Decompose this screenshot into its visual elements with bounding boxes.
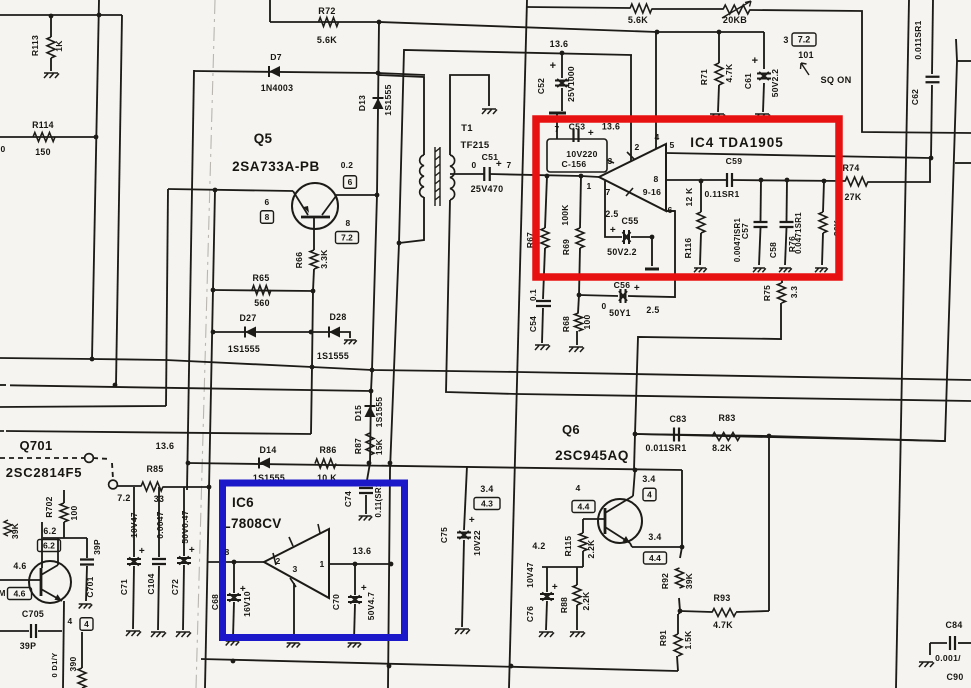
wire C75 chain <box>464 466 467 530</box>
svg-text:D13: D13 <box>357 95 367 111</box>
svg-text:R71: R71 <box>699 69 709 85</box>
node C70 top <box>353 562 358 567</box>
wire C76 lower lead <box>546 601 547 630</box>
wire R113 leads <box>50 16 52 37</box>
node netA/D13 chain <box>370 368 375 373</box>
svg-text:13.6: 13.6 <box>353 546 372 556</box>
ground C70 <box>348 643 362 648</box>
capacitor C104 <box>152 559 166 564</box>
wire net A left <box>0 358 92 359</box>
svg-text:+: + <box>552 582 558 593</box>
svg-text:M: M <box>0 588 6 598</box>
svg-text:25V470: 25V470 <box>471 184 504 194</box>
svg-text:C83: C83 <box>669 414 686 424</box>
svg-text:4: 4 <box>68 616 73 626</box>
op-amp IC4 triangle <box>599 144 666 211</box>
svg-text:1K: 1K <box>54 40 64 52</box>
svg-text:7.2: 7.2 <box>341 233 353 243</box>
capacitor C62 <box>926 77 940 83</box>
ground C57 <box>753 268 766 272</box>
resistor R702 <box>60 503 68 522</box>
node bottom bus/center <box>509 664 514 669</box>
wire vertical bus L4 (13.6 feed) <box>187 70 194 490</box>
wire R88 lower lead <box>576 605 578 630</box>
resistor R87 <box>366 433 374 455</box>
wire C72 lower lead <box>183 565 184 630</box>
svg-text:1N4003: 1N4003 <box>261 83 294 93</box>
wire C705 right lead <box>38 630 62 632</box>
svg-text:100: 100 <box>582 315 592 330</box>
svg-text:R93: R93 <box>713 593 730 603</box>
svg-text:3: 3 <box>783 35 788 45</box>
ground R116 <box>694 268 707 272</box>
wire center vertical bus <box>509 0 527 688</box>
wire Q5 collector <box>336 194 377 196</box>
svg-text:+: + <box>752 55 759 67</box>
capacitor C53 <box>574 129 579 142</box>
node Q5 emitter wire/L5 <box>213 188 218 193</box>
node T1/13.6 <box>397 241 402 246</box>
node C52 top <box>560 51 565 56</box>
svg-text:IC6: IC6 <box>232 495 254 510</box>
svg-text:0.011SR1: 0.011SR1 <box>645 443 686 453</box>
ground T1 shield <box>482 109 497 114</box>
wire IC4 pin5 line <box>666 153 930 158</box>
svg-text:150: 150 <box>35 147 51 157</box>
svg-text:3.4: 3.4 <box>480 484 493 494</box>
wire R114 branch <box>0 136 96 138</box>
svg-text:R115: R115 <box>563 536 573 557</box>
svg-text:4: 4 <box>575 483 580 493</box>
svg-text:C56: C56 <box>614 280 631 290</box>
svg-text:+: + <box>550 60 557 72</box>
wire C83/R83 branch <box>635 434 945 441</box>
wire net D dash start <box>0 430 4 432</box>
wire Q701 dashed link <box>0 457 85 459</box>
svg-text:10V220: 10V220 <box>566 149 597 159</box>
resistor R116 <box>697 212 705 233</box>
svg-text:D14: D14 <box>259 445 276 455</box>
wire R702 lower lead <box>63 522 65 538</box>
node R65 left <box>211 288 216 293</box>
boxed 8 Q5 <box>261 211 274 224</box>
wire R113 lower lead <box>50 58 52 71</box>
wire right stub y61 <box>957 60 971 62</box>
node R65/R66 <box>311 289 316 294</box>
wire rail between 5.6K and 20KB <box>652 8 723 10</box>
wire C701 chain <box>86 538 88 558</box>
capacitor C54 <box>536 301 551 306</box>
svg-text:4: 4 <box>84 619 89 629</box>
wire 20KB to right corner <box>750 10 971 133</box>
capacitor C51 <box>484 167 490 181</box>
node D7/D13 <box>376 71 381 76</box>
wire R66 base chain <box>313 217 315 250</box>
wire C52 bottom bar <box>549 112 566 115</box>
wire top-right rail <box>527 7 630 8</box>
wire R68 to ground <box>576 331 578 345</box>
svg-text:13.6: 13.6 <box>156 441 175 451</box>
svg-text:0.11SR1: 0.11SR1 <box>704 189 739 199</box>
diode D27 <box>245 327 256 338</box>
svg-text:5.6K: 5.6K <box>317 35 337 45</box>
wire C58 top lead <box>786 180 789 221</box>
wire 4.2 node <box>542 566 583 568</box>
svg-text:D15: D15 <box>353 405 363 421</box>
svg-text:+: + <box>139 546 145 557</box>
wire R72 supply rail <box>270 22 764 32</box>
red highlight box IC4 <box>536 119 839 277</box>
svg-text:1S1555: 1S1555 <box>383 84 393 115</box>
svg-text:C58: C58 <box>768 242 778 258</box>
svg-text:1S1555: 1S1555 <box>374 397 384 428</box>
op-amp IC6 tick up2 <box>289 537 293 546</box>
op-amp IC6 tick low <box>290 578 296 587</box>
diode D15 <box>365 406 376 417</box>
wire right box edge <box>635 39 957 441</box>
wire C55 end bar <box>645 268 659 271</box>
svg-text:+: + <box>469 515 475 526</box>
node R113 top <box>49 14 54 19</box>
wire C52 bar to pin7 <box>556 113 558 139</box>
transformer T1 secondary winding <box>450 155 455 200</box>
resistor R69 <box>576 228 584 248</box>
svg-text:39K: 39K <box>684 573 694 589</box>
wire C76 lead <box>546 567 548 592</box>
capacitor C72 <box>177 557 191 565</box>
svg-text:IC4 TDA1905: IC4 TDA1905 <box>690 135 784 150</box>
wire vertical bus V1 <box>92 0 99 359</box>
svg-text:101: 101 <box>798 50 814 60</box>
ground R76 <box>815 268 828 272</box>
svg-text:8.2K: 8.2K <box>712 443 732 453</box>
wire C104 lead <box>158 487 160 557</box>
wire R69 to R68 <box>579 248 580 295</box>
node Q5 collector/D13 <box>375 193 380 198</box>
wire Q701 emitter down <box>63 601 64 688</box>
svg-text:R74: R74 <box>842 163 859 173</box>
wire R85 node <box>117 485 141 487</box>
svg-text:R65: R65 <box>252 273 269 283</box>
ground C71 <box>126 631 141 636</box>
wire D14/R86 line <box>188 463 682 470</box>
wire T1 tap <box>450 173 451 175</box>
svg-text:Q6: Q6 <box>562 422 580 437</box>
wire R75 chain <box>781 274 783 283</box>
svg-text:R92: R92 <box>660 573 670 589</box>
svg-text:4.4: 4.4 <box>578 502 590 512</box>
svg-text:Q5: Q5 <box>254 131 273 146</box>
wire net C <box>0 406 166 407</box>
resistor 20KB pot <box>723 5 750 14</box>
capacitor C75 <box>457 531 471 539</box>
svg-text:3.4: 3.4 <box>642 474 655 484</box>
svg-text:0.011SR1: 0.011SR1 <box>913 20 923 59</box>
wire R91 top lead <box>678 613 679 615</box>
svg-text:25V1000: 25V1000 <box>566 66 576 102</box>
svg-text:R116: R116 <box>683 238 693 259</box>
node IC6 out/13.6 <box>389 562 394 567</box>
ground C58 <box>779 268 792 272</box>
svg-text:7: 7 <box>555 124 560 134</box>
wire vertical bus L5 <box>205 190 215 688</box>
svg-text:2.5: 2.5 <box>646 305 659 315</box>
svg-text:D7: D7 <box>270 52 282 62</box>
wire IC4 pin8 line <box>666 179 727 181</box>
wire C59 to R74 <box>732 180 845 181</box>
wire C61 leads <box>763 32 765 69</box>
boxed 7.2 Q5 <box>336 232 359 244</box>
wire D27 branch <box>213 331 311 333</box>
wire net B <box>10 385 371 391</box>
wire Q701 dashed drop <box>112 463 113 479</box>
svg-text:C76: C76 <box>525 606 535 622</box>
ground C72 <box>176 632 191 637</box>
svg-text:+: + <box>634 283 640 294</box>
node D27 right <box>309 330 314 335</box>
svg-text:0 D1/Y: 0 D1/Y <box>50 652 59 677</box>
wire C70 lower lead <box>354 604 355 640</box>
node L2 netB <box>113 383 118 388</box>
transistor Q701 <box>29 561 71 603</box>
svg-text:33: 33 <box>154 494 164 504</box>
ground C74 <box>359 516 373 521</box>
boxed 6.2 <box>38 540 61 552</box>
wire R115 top lead <box>582 519 584 533</box>
wire R? 390 lead <box>81 632 83 668</box>
wire pin4 drop <box>655 32 657 149</box>
boxed 7.2 SQ <box>792 33 816 46</box>
svg-text:4: 4 <box>654 132 659 142</box>
svg-text:12 K: 12 K <box>684 188 694 207</box>
wire C51 input line <box>451 173 484 175</box>
svg-text:15K: 15K <box>374 439 384 455</box>
wire IC4 pin6 drop <box>666 210 675 212</box>
wire R71 leads <box>718 32 720 63</box>
svg-text:16V10: 16V10 <box>242 591 252 617</box>
node R87/D14 <box>367 461 372 466</box>
svg-text:C74: C74 <box>343 491 353 507</box>
diode D13 <box>373 98 384 109</box>
svg-text:8: 8 <box>224 547 229 557</box>
resistor R115 <box>579 533 587 551</box>
connector circle Q701-2 <box>109 480 118 489</box>
svg-text:1: 1 <box>319 559 324 569</box>
svg-text:R69: R69 <box>561 239 571 255</box>
wire C84 stub <box>930 642 947 644</box>
svg-text:+: + <box>189 545 195 556</box>
wire pin2 drop <box>630 55 632 161</box>
svg-text:0.001/: 0.001/ <box>935 653 961 663</box>
resistor R88 <box>573 585 581 605</box>
svg-text:C70: C70 <box>331 594 341 610</box>
wire x769 vertical <box>768 436 770 611</box>
node V1 netA <box>90 357 95 362</box>
svg-text:C55: C55 <box>621 216 638 226</box>
wire D13/D15 vertical chain <box>366 22 379 486</box>
svg-text:R68: R68 <box>561 316 571 332</box>
ground C104 <box>151 632 166 637</box>
node netA/D27 drop <box>310 365 315 370</box>
svg-text:10V22: 10V22 <box>472 530 482 556</box>
node R71 top <box>717 30 722 35</box>
svg-text:+: + <box>610 225 616 236</box>
wire C74 lower lead <box>365 495 367 514</box>
wire 13.6 rail to T1/IC6 <box>388 50 632 688</box>
svg-text:C71: C71 <box>119 579 129 595</box>
capacitor C701 <box>80 560 94 565</box>
resistor R93 <box>712 609 736 617</box>
svg-text:C68: C68 <box>210 594 220 610</box>
resistor R76 <box>819 212 827 233</box>
node D27 left <box>211 330 216 335</box>
svg-text:5: 5 <box>669 140 674 150</box>
wire R67 chain <box>545 176 547 228</box>
svg-text:C62: C62 <box>910 89 920 105</box>
wire net D <box>6 431 311 434</box>
svg-text:39K: 39K <box>10 523 20 539</box>
svg-text:2.2K: 2.2K <box>581 592 591 611</box>
svg-text:7: 7 <box>507 160 512 170</box>
svg-text:R87: R87 <box>353 438 363 454</box>
svg-text:R85: R85 <box>146 464 163 474</box>
wire C54 to ground <box>542 308 543 343</box>
wire C84 gnd stub <box>929 643 931 655</box>
svg-text:3.3: 3.3 <box>789 286 799 299</box>
capacitor C55 <box>623 230 631 244</box>
capacitor C74 <box>359 488 373 493</box>
pot arrow 20KB <box>722 1 751 18</box>
svg-text:13.6: 13.6 <box>602 122 620 132</box>
svg-text:C54: C54 <box>528 316 538 332</box>
svg-text:C104: C104 <box>146 573 156 594</box>
node R76 top <box>822 179 827 184</box>
transistor Q5 <box>292 183 338 229</box>
svg-text:C59: C59 <box>726 156 743 166</box>
wire C55 branch <box>605 181 622 237</box>
wire Q5 emitter lead <box>168 189 293 191</box>
node D13 top <box>377 20 382 25</box>
svg-text:10V47: 10V47 <box>525 562 535 588</box>
svg-text:C701: C701 <box>85 576 95 597</box>
svg-text:1.5K: 1.5K <box>683 631 693 650</box>
ground R113 <box>44 73 59 78</box>
wire vertical bus L2 <box>116 15 122 385</box>
ground R88 <box>570 632 585 637</box>
wire C70 chain <box>354 564 356 595</box>
resistor R83 <box>712 433 740 441</box>
svg-text:13.6: 13.6 <box>550 39 569 49</box>
svg-text:2SC2814F5: 2SC2814F5 <box>6 465 83 480</box>
wire C56 right lead <box>628 211 675 297</box>
ground D28 <box>344 340 357 344</box>
svg-text:50V0.47: 50V0.47 <box>180 510 190 543</box>
connector circle Q701-1 <box>85 454 94 463</box>
svg-text:Q701: Q701 <box>19 438 52 453</box>
capacitor C83 <box>674 428 679 442</box>
svg-text:7.2: 7.2 <box>798 35 811 45</box>
svg-text:0.11(SR1: 0.11(SR1 <box>374 482 383 517</box>
resistor R71 <box>715 63 723 85</box>
capacitor C57 <box>754 222 768 227</box>
svg-text:6: 6 <box>667 205 672 215</box>
node R114/V1 <box>94 135 99 140</box>
wire D7 branch <box>194 71 425 75</box>
svg-text:R91: R91 <box>658 630 668 646</box>
svg-text:0: 0 <box>602 301 607 311</box>
wire C104 lower lead <box>158 566 159 630</box>
wire C75 lower lead <box>462 540 464 627</box>
svg-text:4.4: 4.4 <box>649 553 661 563</box>
transistor Q6 <box>598 499 642 543</box>
svg-text:4.2: 4.2 <box>532 541 545 551</box>
wire R69 chain <box>580 176 581 228</box>
svg-text:4.6: 4.6 <box>14 589 26 599</box>
node C83/R83 right <box>767 434 772 439</box>
wire C61 lower lead <box>763 83 764 112</box>
svg-text:27K: 27K <box>844 192 861 202</box>
wire R702 chain <box>63 490 65 503</box>
wire R116 top lead <box>700 181 702 212</box>
op-amp IC6 tick up1 <box>318 524 320 533</box>
node C68 top <box>232 560 237 565</box>
node C55 drop <box>650 235 655 240</box>
ground C68 <box>226 641 240 646</box>
wire R72 rail top stub <box>269 0 271 22</box>
wire C52 lower lead <box>561 88 563 111</box>
node D14 left <box>186 461 191 466</box>
svg-text:50V4.7: 50V4.7 <box>366 592 376 620</box>
svg-text:C72: C72 <box>170 579 180 595</box>
svg-text:4: 4 <box>647 490 652 500</box>
resistor 39K stub left <box>4 520 12 536</box>
svg-text:50V2.2: 50V2.2 <box>770 69 780 97</box>
capacitor C705 <box>31 624 36 638</box>
svg-text:1S1555: 1S1555 <box>228 344 260 354</box>
wire Q6 base lead <box>583 518 605 520</box>
svg-text:6: 6 <box>348 177 353 187</box>
boxed 4 Q6 <box>643 488 656 501</box>
svg-text:3: 3 <box>607 156 612 166</box>
node 13.6/D14 <box>388 461 393 466</box>
ground R71 <box>710 114 725 119</box>
transformer T1 core <box>435 147 440 206</box>
wire IC6 pin3 drop <box>293 583 295 640</box>
node C56/R68 <box>577 293 582 298</box>
resistor R91 <box>674 634 682 656</box>
resistor R86 <box>315 459 336 468</box>
svg-text:0.0047: 0.0047 <box>155 511 165 538</box>
wire R67 to C54 <box>543 248 545 299</box>
wire Q701 base line <box>0 579 41 581</box>
capacitor C61 <box>757 72 771 80</box>
node C51/R69/pin1 <box>579 174 584 179</box>
wire right bus x909 <box>896 0 909 688</box>
wire R76 lower lead <box>822 233 823 265</box>
svg-text:100K: 100K <box>560 204 570 225</box>
wire bottom bus <box>201 659 678 671</box>
wire C56 branch <box>579 295 618 296</box>
svg-text:C52: C52 <box>536 78 546 94</box>
boxed 4.4 Q6b <box>644 552 667 564</box>
svg-text:D27: D27 <box>239 313 256 323</box>
node bottom bus left <box>231 659 236 664</box>
node bottom bus/13.6 <box>387 664 392 669</box>
svg-text:TF215: TF215 <box>461 140 490 151</box>
op-amp IC6 triangle <box>264 529 329 598</box>
wire R88 lead <box>576 567 578 585</box>
resistor R114 <box>33 133 55 142</box>
